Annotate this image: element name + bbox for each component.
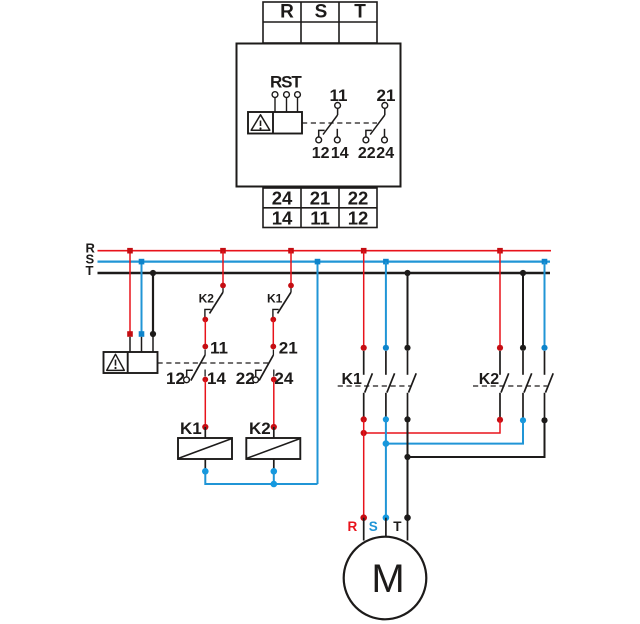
wire S pin lead	[286, 98, 288, 113]
svg-text:RST: RST	[270, 73, 302, 92]
node pin 21	[270, 344, 276, 350]
node K2 pole2 bottom (blue)	[520, 417, 526, 423]
bus wire S (blue)	[98, 261, 551, 263]
wire motor lead T	[407, 518, 409, 541]
terminal R pin circle	[272, 92, 278, 98]
svg-text:K1: K1	[267, 292, 283, 306]
node S join	[383, 440, 390, 447]
node R tap (K2 NC branch)	[220, 248, 226, 254]
svg-text:22: 22	[236, 369, 255, 388]
wire motor lead S	[385, 518, 387, 538]
node S tap (K2 pole3)	[542, 259, 548, 265]
node K1 pole3 top	[404, 345, 410, 351]
node T tap (relay)	[150, 270, 156, 276]
svg-text:T: T	[393, 519, 402, 534]
wire K2 coil drop	[273, 471, 275, 484]
NC contact K1 (aux)	[273, 288, 291, 317]
contact K2 pole1	[500, 351, 509, 419]
wire relay lead R (black tail)	[129, 337, 131, 352]
wire S to K1 pole2	[385, 262, 387, 347]
dashed mechanical link (internal)	[302, 122, 377, 124]
wire T phase join (K2 pole3 to motor T)	[408, 420, 545, 457]
node K1 pole2 bottom	[383, 416, 389, 422]
coil K1	[178, 438, 232, 459]
node K2 pole2 top	[520, 345, 526, 351]
contact 21-22-24 (external changeover)	[256, 350, 274, 381]
node R tap (K2 pole1)	[497, 248, 503, 254]
contact K1 pole2	[386, 351, 395, 419]
bus wire T (black)	[98, 272, 551, 275]
wire T pin lead	[297, 98, 299, 113]
node below K1 NC	[270, 317, 276, 323]
sensor block with warning symbol	[248, 112, 302, 134]
node T tap (K2 pole2)	[520, 270, 526, 276]
wire R to K2 NC	[222, 251, 224, 285]
wire K1 coil to S return	[205, 471, 317, 484]
svg-text:K1: K1	[342, 371, 363, 388]
dashed mechanical link (external contacts)	[158, 362, 270, 364]
svg-text:S: S	[315, 2, 328, 23]
node K2 pole3 bottom (black)	[541, 417, 547, 423]
wire K1 NC to pin 21	[272, 320, 274, 347]
node K2 pole1 top	[497, 345, 503, 351]
node S tap (K1 pole2)	[383, 259, 389, 265]
node above K2 NC	[220, 283, 226, 289]
dashed link K1 contactor	[338, 385, 412, 387]
contact K2 pole2	[523, 351, 532, 419]
wire R drop to relay	[129, 251, 131, 335]
svg-text:K2: K2	[479, 371, 500, 388]
wire motor S drop	[385, 419, 387, 517]
node K2 coil A1	[271, 424, 277, 430]
svg-text:11: 11	[210, 338, 228, 357]
svg-text:K1: K1	[180, 419, 202, 438]
wire S return riser	[317, 262, 319, 484]
coil K2	[246, 438, 300, 459]
node R tap (K1 NC branch)	[288, 248, 294, 254]
wire relay lead S (black tail)	[141, 337, 143, 352]
node below K2 NC	[202, 317, 208, 323]
svg-text:R: R	[348, 519, 358, 534]
wire motor R drop	[363, 419, 365, 517]
relay U1 outline box	[237, 44, 401, 187]
wire S to K2 pole3	[544, 262, 546, 347]
wire T to K1 pole3	[407, 273, 409, 347]
svg-text:12: 12	[166, 369, 185, 388]
phase monitor relay box	[104, 352, 158, 373]
svg-text:11: 11	[310, 208, 330, 229]
contact 11-12-14 (external changeover)	[187, 350, 205, 381]
wire R to K2 pole1	[499, 251, 501, 347]
pin 12 open terminal	[184, 377, 190, 383]
wire pin 24 to K2 coil	[273, 380, 275, 428]
node K2 pole1 bottom	[497, 417, 503, 423]
node motor S	[383, 514, 390, 521]
wire R phase join (K2 pole1 to motor R)	[364, 420, 500, 433]
node coil return junction	[271, 481, 278, 488]
svg-text:14: 14	[207, 369, 226, 388]
svg-text:M: M	[371, 557, 404, 601]
node K1 pole2 top	[383, 345, 389, 351]
svg-text:22: 22	[348, 187, 369, 208]
svg-text:14: 14	[331, 145, 349, 162]
terminal strip bottom	[263, 188, 377, 228]
contact K2 pole3	[545, 351, 554, 419]
terminal S pin circle	[284, 92, 290, 98]
node K2 pole3 top	[541, 345, 547, 351]
svg-text:24: 24	[272, 187, 293, 208]
node K1 pole1 top	[361, 345, 367, 351]
wire into K2 coil	[273, 427, 275, 438]
wire pin 14 to K1 coil	[204, 380, 206, 428]
relay input marker T	[150, 331, 156, 337]
svg-text:22: 22	[358, 145, 376, 162]
relay input marker S	[139, 331, 145, 337]
contact 11-12-14 (internal changeover)	[316, 103, 341, 143]
wire S drop to relay	[141, 262, 143, 335]
node T tap (K1 pole3)	[404, 270, 410, 276]
node K2 coil bottom (blue)	[271, 468, 278, 475]
node pin 24	[271, 377, 277, 383]
wire K2 coil A2	[273, 459, 275, 470]
node motor R	[360, 514, 367, 521]
svg-text:24: 24	[274, 369, 293, 388]
wire S phase join (K2 pole2 to motor S)	[386, 420, 523, 443]
relay input marker R	[127, 331, 133, 337]
pin 22 open terminal	[253, 377, 259, 383]
svg-text:R: R	[280, 2, 294, 23]
wire K1 coil A2	[204, 459, 206, 470]
svg-text:11: 11	[330, 86, 348, 105]
wire R pin lead	[274, 98, 276, 113]
svg-text:21: 21	[377, 86, 396, 105]
wire motor lead R	[363, 518, 365, 541]
terminal T pin circle	[295, 92, 301, 98]
node T join	[404, 454, 410, 460]
node above K1 NC	[288, 283, 294, 289]
svg-text:K2: K2	[249, 419, 271, 438]
contact 21-22-24 (internal changeover)	[363, 103, 388, 143]
svg-text:K2: K2	[199, 292, 215, 306]
node R tap (relay)	[127, 248, 133, 254]
svg-text:21: 21	[279, 338, 298, 357]
node motor T	[404, 514, 411, 521]
node K1 coil A1	[202, 424, 208, 430]
svg-text:T: T	[86, 263, 94, 278]
svg-text:12: 12	[348, 208, 369, 229]
terminal strip top (R S T)	[263, 2, 377, 43]
svg-text:14: 14	[272, 208, 293, 229]
wire R to K1 pole1	[363, 251, 365, 347]
node K1 pole1 bottom	[361, 416, 367, 422]
NC contact K2 (aux)	[205, 288, 223, 317]
dashed link K2 contactor	[473, 385, 547, 387]
wire K2 NC to pin 11	[204, 320, 206, 347]
contact K1 pole3	[408, 351, 417, 419]
node R tap (K1 pole1)	[361, 248, 367, 254]
wire into K1 coil	[204, 427, 206, 438]
wire T to K2 pole2	[522, 273, 524, 347]
wire R to K1 NC	[290, 251, 292, 285]
node K1 pole3 bottom	[404, 416, 410, 422]
wire motor T drop	[407, 419, 409, 517]
svg-text:T: T	[354, 2, 366, 23]
svg-text:21: 21	[310, 187, 331, 208]
svg-text:S: S	[369, 519, 378, 534]
node pin 14	[202, 377, 208, 383]
wire T drop to relay	[152, 273, 154, 335]
svg-text:24: 24	[376, 145, 394, 162]
node S tap (relay)	[139, 259, 145, 265]
node K1 coil bottom (blue)	[202, 468, 209, 475]
motor M1	[344, 537, 427, 620]
node R join	[361, 430, 367, 436]
node S tap (coil return)	[315, 259, 321, 265]
bus wire R (red)	[98, 250, 552, 252]
svg-text:12: 12	[312, 145, 330, 162]
node pin 11	[202, 344, 208, 350]
contact K1 pole1	[364, 351, 373, 419]
